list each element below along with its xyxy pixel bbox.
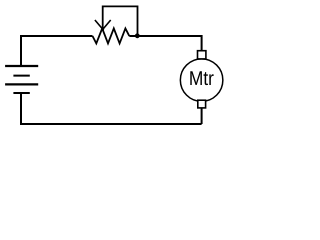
rheostat arrowhead leg right (102, 20, 111, 30)
motor M1 body circle (180, 59, 223, 102)
wire: bottom rail (20, 123, 202, 125)
resistor R1 zigzag body (93, 28, 130, 43)
motor label Mtr (190, 71, 213, 85)
wire: top rail from battery + to rheostat left lead (21, 35, 93, 37)
motor M1 brush terminal top (198, 51, 206, 59)
battery B1 plate short (13, 75, 29, 77)
battery B1 plate long (5, 83, 38, 85)
battery B1 plate long (+ top) (5, 65, 38, 67)
wire: motor top lead (201, 35, 203, 52)
junction node dot (135, 33, 140, 38)
wire: left rail (battery top lead) (20, 35, 22, 66)
wire: rheostat wiper stem and shorting loop to right terminal (103, 6, 138, 36)
wire: motor bottom lead (201, 108, 203, 125)
battery B1 plate short (- bottom) (13, 92, 29, 94)
wire: right lead of rheostat to motor (129, 35, 201, 37)
motor M1 brush terminal bottom (198, 100, 206, 108)
rheostat arrowhead leg left (95, 20, 104, 30)
wire: battery bottom lead down to bottom rail (20, 93, 22, 125)
